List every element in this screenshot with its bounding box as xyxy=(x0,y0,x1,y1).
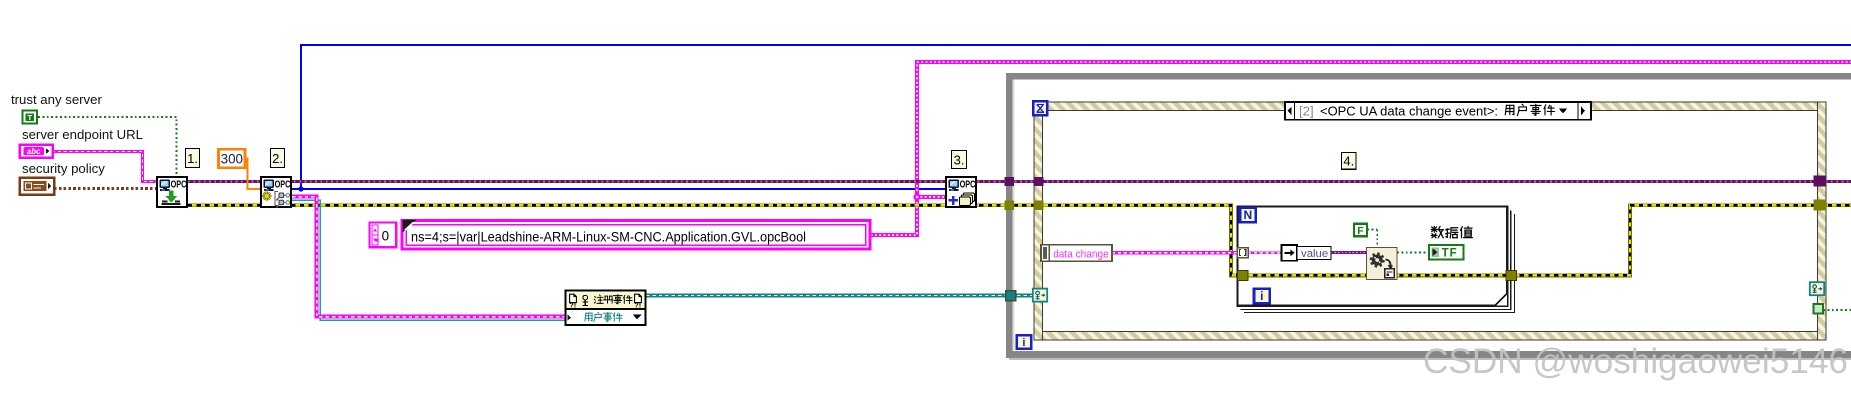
tunnel: error on event border left xyxy=(1034,201,1044,210)
wire: OPC UA session refnum (purple) xyxy=(188,180,1851,183)
wire: user event refnum (magenta/teal composite) xyxy=(292,200,565,320)
svg-text:abc: abc xyxy=(27,147,41,156)
string array constant: element "ns=4;..." xyxy=(402,220,870,249)
for loop page fold xyxy=(1495,294,1507,306)
svg-text:F: F xyxy=(1357,225,1364,237)
tunnel: auto-index [0] on for loop xyxy=(1237,248,1248,258)
boolean constant F xyxy=(1354,224,1367,237)
tunnel: dynamic event terminal on event border right xyxy=(1810,282,1824,295)
node: variant to data xyxy=(1366,248,1397,280)
svg-text:TF: TF xyxy=(1442,247,1458,259)
while loop iteration terminal i xyxy=(1017,335,1032,349)
svg-text:<OPC UA data change event>:: <OPC UA data change event>: xyxy=(1320,104,1498,119)
wire: error cluster xyxy=(188,205,1851,275)
wire: 300 timeout xyxy=(245,159,260,190)
event structure header selector xyxy=(1285,102,1591,120)
junction: blue wire node xyxy=(298,186,303,191)
tunnel: error on for loop left xyxy=(1238,271,1248,281)
wire: VTD to indicator xyxy=(1397,252,1429,254)
string constant abc (server endpoint URL) xyxy=(20,145,53,158)
junction: magenta wire node xyxy=(913,193,920,200)
svg-text:OPC: OPC xyxy=(275,179,291,191)
svg-text:2.: 2. xyxy=(272,151,283,166)
for loop count terminal N xyxy=(1240,208,1256,223)
svg-text:0: 0 xyxy=(382,228,389,243)
node: register events (注册事件) xyxy=(566,291,646,326)
svg-text:trust any server: trust any server xyxy=(11,92,102,107)
for loop iteration terminal i xyxy=(1254,289,1270,304)
OPC UA node 2: create subscription (U2) xyxy=(261,177,291,208)
svg-text:security policy: security policy xyxy=(22,161,105,176)
svg-text:N: N xyxy=(1243,208,1252,222)
wire: security policy ring xyxy=(54,187,156,190)
svg-text:300: 300 xyxy=(221,152,243,167)
header text: 用户事件 xyxy=(1505,105,1514,115)
wire: trust any server boolean xyxy=(38,117,177,176)
event structure border xyxy=(1034,102,1826,340)
label 2. xyxy=(271,149,285,168)
svg-text:i: i xyxy=(1022,337,1025,349)
wire: event data to for loop xyxy=(1112,251,1240,254)
label 1. xyxy=(186,149,200,168)
boolean constant T (trust any server) xyxy=(23,111,37,124)
for loop frame (stacked) xyxy=(1237,206,1514,312)
svg-text:1.: 1. xyxy=(187,151,198,166)
label 3. xyxy=(952,151,967,169)
svg-text:value: value xyxy=(1301,248,1328,260)
wire: boolean out to loop condition xyxy=(1823,309,1851,311)
node: get value xyxy=(1282,245,1331,261)
wire: node id string array, top + vertical xyxy=(870,62,1851,235)
svg-text:server endpoint URL: server endpoint URL xyxy=(22,127,143,142)
tunnel: purple on while-loop border xyxy=(1005,177,1014,186)
tunnel: purple on event border left xyxy=(1034,177,1044,186)
tunnel: purple on event border right xyxy=(1814,176,1827,187)
wire: blue subscription refnum, top run xyxy=(292,45,1851,189)
label 4. xyxy=(1342,153,1356,170)
wire: event registration refnum xyxy=(646,294,1036,298)
tunnel: dynamic event terminal on event border left xyxy=(1033,289,1047,302)
while loop border xyxy=(1006,73,1851,360)
svg-text:i: i xyxy=(1260,289,1263,303)
svg-text:4.: 4. xyxy=(1343,154,1354,169)
tunnel: error on while-loop border xyxy=(1005,201,1014,210)
string array constant: index box xyxy=(370,223,397,248)
ring constant (security policy) xyxy=(20,178,55,195)
svg-text:OPC: OPC xyxy=(171,179,187,191)
wire: indexed element to value node xyxy=(1248,251,1282,254)
svg-text:CSDN @woshigaowei5146: CSDN @woshigaowei5146 xyxy=(1423,341,1848,381)
svg-text:ns=4;s=|var|Leadshine-ARM-Linu: ns=4;s=|var|Leadshine-ARM-Linux-SM-CNC.A… xyxy=(411,230,806,245)
wire: node id to OPC add node xyxy=(917,195,945,199)
tunnel: error on for loop right xyxy=(1506,271,1517,281)
svg-text:3.: 3. xyxy=(954,152,965,167)
tunnel: error on event border right xyxy=(1814,200,1827,211)
tunnel: small green output on event border right xyxy=(1813,304,1823,314)
OPC UA node 3: add monitored items (U3) xyxy=(946,177,976,207)
svg-text:?!: ?! xyxy=(569,300,576,309)
event structure timeout terminal xyxy=(1033,101,1047,115)
indicator: 数据值 TF xyxy=(1431,226,1443,237)
svg-text:T: T xyxy=(27,113,32,122)
wire: F to VTD (h) xyxy=(1367,229,1377,231)
wire: server endpoint URL string xyxy=(52,152,156,182)
svg-text:OPC: OPC xyxy=(960,179,976,191)
svg-text:?!: ?! xyxy=(634,300,641,309)
event data node: data change xyxy=(1041,245,1112,262)
wire: value to variant-to-data (violet) xyxy=(1331,251,1367,254)
svg-text:data change: data change xyxy=(1053,248,1109,260)
tunnel: event reg on while-loop border xyxy=(1006,291,1016,301)
svg-text:[2]: [2] xyxy=(1299,104,1314,119)
OPC UA node 1: connect (U1) xyxy=(157,177,187,207)
numeric constant 300 xyxy=(219,149,245,168)
